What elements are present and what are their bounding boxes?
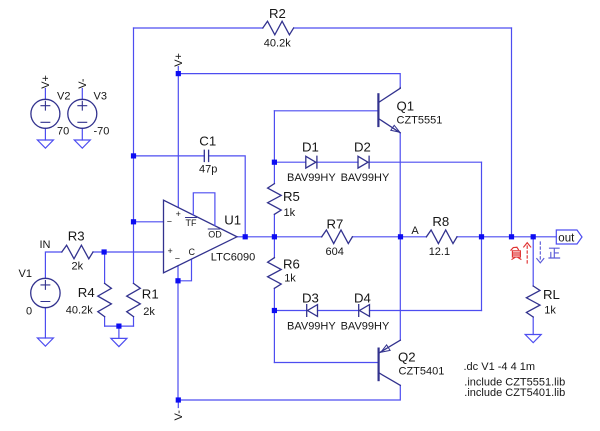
node junction diode drop rail at output row xyxy=(479,234,484,239)
svg-text:D1: D1 xyxy=(302,140,319,155)
node junction at V+ flag xyxy=(176,71,181,76)
wire R3 to noninverting input xyxy=(93,251,164,253)
capacitor C1 plates xyxy=(204,150,208,161)
svg-text:2k: 2k xyxy=(143,306,155,318)
svg-text:BAV99HY: BAV99HY xyxy=(341,172,390,184)
wire output row U1 to R7 xyxy=(245,236,322,238)
wire R7 to R8 through node A xyxy=(352,236,426,238)
op-amp U1 triangle xyxy=(164,200,238,273)
wire op-amp V- pin down to bottom rail xyxy=(177,266,179,400)
svg-text:R2: R2 xyxy=(269,6,286,21)
annotation blue dashed down arrow xyxy=(537,242,544,263)
op-amp U1 TF-OD loop xyxy=(193,193,215,226)
wire op-amp C pin hook to V- rail xyxy=(178,259,192,281)
wire V1 top to IN corner xyxy=(45,252,61,279)
resistor R7 body xyxy=(322,230,353,244)
ground below V3 xyxy=(74,140,90,148)
annotation blue kanji positive xyxy=(549,248,560,258)
wire D1 to D2 xyxy=(317,161,358,163)
svg-text:C1: C1 xyxy=(199,134,216,149)
wire inverting input xyxy=(134,221,164,223)
svg-text:R1: R1 xyxy=(142,287,159,302)
wire R4 bottom lead xyxy=(104,317,106,327)
wire R4 top lead xyxy=(104,252,106,283)
wire V+ rail to Q1 collector xyxy=(178,74,400,88)
wire top feedback rail right segment xyxy=(294,27,512,29)
svg-text:IN: IN xyxy=(40,239,51,251)
ground below V2 xyxy=(37,140,53,148)
wire ground stem bottom-left xyxy=(118,326,120,338)
ground below V1 xyxy=(37,338,53,346)
svg-text:D3: D3 xyxy=(302,291,319,306)
wire D3 row left lead xyxy=(274,310,306,312)
svg-text:U1: U1 xyxy=(224,213,241,228)
wire bottom ground row R4 to R1 xyxy=(105,325,134,327)
svg-text:-70: -70 xyxy=(94,126,110,138)
svg-text:70: 70 xyxy=(57,126,69,138)
wire Q1 emitter down to node A xyxy=(399,133,401,237)
wire Q2 emitter up to node A xyxy=(399,237,401,340)
ground below R4/R1 xyxy=(111,338,127,346)
resistor R5 body xyxy=(268,184,282,215)
svg-text:TF: TF xyxy=(186,218,197,228)
svg-text:R6: R6 xyxy=(283,257,300,272)
svg-text:−: − xyxy=(175,253,180,263)
svg-text:BAV99HY: BAV99HY xyxy=(287,172,336,184)
svg-text:BAV99HY: BAV99HY xyxy=(341,321,390,333)
wire V3 top stub to V- flag xyxy=(81,89,83,100)
op-amp pin labels xyxy=(167,209,222,263)
svg-text:.dc V1 -4 4 1m: .dc V1 -4 4 1m xyxy=(464,361,536,373)
svg-text:1k: 1k xyxy=(544,305,556,317)
wire right feedback drop to output node xyxy=(511,28,513,237)
node junction C1 right at output xyxy=(243,234,248,239)
svg-text:R4: R4 xyxy=(78,285,95,300)
node junction V- flag xyxy=(176,397,181,402)
svg-text:Q2: Q2 xyxy=(398,350,416,365)
svg-text:.include CZT5401.lib: .include CZT5401.lib xyxy=(464,387,565,399)
wire right drop rail D-rows to output xyxy=(481,162,483,310)
transistor Q1 NPN xyxy=(378,88,400,133)
resistor R1 body xyxy=(127,283,141,316)
svg-text:R8: R8 xyxy=(432,214,449,229)
svg-text:R5: R5 xyxy=(283,189,300,204)
wire V+ rail down to op-amp supply pin xyxy=(177,74,179,208)
resistor R4 body xyxy=(98,283,112,316)
svg-text:V-: V- xyxy=(173,410,185,421)
svg-text:V+: V+ xyxy=(173,53,185,67)
voltage source V2 xyxy=(31,99,60,128)
svg-text:40.2k: 40.2k xyxy=(66,305,93,317)
diode D1 xyxy=(306,156,317,168)
svg-text:V+: V+ xyxy=(40,75,52,89)
node junction driver rail at output row xyxy=(272,234,277,239)
svg-text:V1: V1 xyxy=(19,268,32,280)
wire left feedback rail upper (to C1 tap and inverting input) xyxy=(133,28,135,283)
wire op-amp output stub xyxy=(237,236,245,238)
svg-text:V-: V- xyxy=(77,78,89,89)
svg-text:CZT5401: CZT5401 xyxy=(399,366,445,378)
wire V1 bottom to ground xyxy=(44,308,46,339)
node junction inverting input xyxy=(131,219,136,224)
wire top feedback rail left segment xyxy=(134,27,263,29)
node junction driver rail at D1 row xyxy=(272,160,277,165)
svg-text:R3: R3 xyxy=(68,228,85,243)
node junction R3/R4 noninverting input xyxy=(102,249,107,254)
svg-text:0: 0 xyxy=(26,306,32,318)
op-amp TF OD overlines xyxy=(186,218,220,230)
node junction feedback at output row xyxy=(509,234,514,239)
wire D3 to D4 xyxy=(318,310,359,312)
svg-text:1k: 1k xyxy=(284,207,296,219)
svg-text:47p: 47p xyxy=(199,164,217,176)
node junction op-amp C pin to V- xyxy=(175,278,180,283)
wire V2 bottom to ground xyxy=(44,128,46,140)
resistor R2 body xyxy=(263,21,294,35)
node junction C1 left tap xyxy=(131,153,136,158)
wire left driver rail lower (R6 to Q2 base row) xyxy=(273,288,275,362)
node junction bottom-left ground tap xyxy=(116,324,121,329)
svg-text:12.1: 12.1 xyxy=(429,246,450,258)
wire V- flag stub xyxy=(177,400,179,408)
svg-text:D2: D2 xyxy=(354,140,371,155)
resistor RL body xyxy=(526,286,540,317)
svg-text:40.2k: 40.2k xyxy=(264,38,291,50)
svg-text:−: − xyxy=(167,216,172,226)
wire C1 left lead xyxy=(134,155,205,157)
svg-text:CZT5551: CZT5551 xyxy=(397,115,443,127)
svg-text:1k: 1k xyxy=(284,273,296,285)
svg-text:out: out xyxy=(558,232,575,244)
svg-text:V2: V2 xyxy=(57,91,70,103)
svg-text:+: + xyxy=(176,209,181,219)
transistor Q2 PNP xyxy=(379,340,401,385)
svg-text:A: A xyxy=(411,225,419,237)
resistor R8 body xyxy=(426,230,457,244)
wire left driver rail upper (to R5) xyxy=(273,111,275,184)
svg-text:2k: 2k xyxy=(72,260,84,272)
svg-text:BAV99HY: BAV99HY xyxy=(287,321,336,333)
node junction RL tap at output row xyxy=(531,234,536,239)
wire R1 bottom lead to ground row xyxy=(133,317,135,327)
wire RL bottom lead to ground xyxy=(532,317,534,335)
svg-text:RL: RL xyxy=(543,287,560,302)
svg-text:+: + xyxy=(168,246,173,256)
svg-text:Q1: Q1 xyxy=(397,99,415,114)
svg-text:LTC6090: LTC6090 xyxy=(211,252,255,264)
node junction driver rail at D3 row xyxy=(272,308,277,313)
wire RL top lead xyxy=(532,237,534,286)
svg-text:OD: OD xyxy=(208,230,222,240)
wire Q1 base xyxy=(274,110,378,112)
diode D4 xyxy=(359,305,370,317)
wire V2 top stub to V+ flag xyxy=(44,89,46,100)
wire bottom V- rail to Q2 collector xyxy=(178,385,400,400)
wire D4 to right drop rail xyxy=(370,310,482,312)
diode D2 xyxy=(358,156,369,168)
annotation red dashed up arrow xyxy=(524,243,531,264)
wire V3 bottom to ground xyxy=(81,128,83,140)
svg-text:D4: D4 xyxy=(354,291,371,306)
wire C1 right lead down to output xyxy=(209,156,246,237)
wire V+ flag stub xyxy=(177,67,179,74)
diode D3 xyxy=(307,305,318,317)
resistor R6 body xyxy=(268,258,282,289)
out port pentagon xyxy=(556,230,582,244)
voltage source V3 xyxy=(68,99,97,128)
svg-text:604: 604 xyxy=(326,246,344,258)
annotation red kanji negative xyxy=(511,247,521,259)
wire Q2 base xyxy=(274,362,378,364)
ground below RL xyxy=(525,335,541,343)
wire D1 row left lead xyxy=(274,161,305,163)
node A junction xyxy=(398,234,403,239)
resistor R3 body xyxy=(62,245,93,259)
svg-text:C: C xyxy=(189,247,196,257)
voltage source V1 xyxy=(31,278,60,307)
wire R8 to out port xyxy=(457,236,556,238)
svg-text:R7: R7 xyxy=(327,217,344,232)
svg-text:V3: V3 xyxy=(94,91,107,103)
wire D2 to right drop rail xyxy=(369,161,481,163)
wire left driver rail middle (R5 to R6) xyxy=(273,214,275,257)
